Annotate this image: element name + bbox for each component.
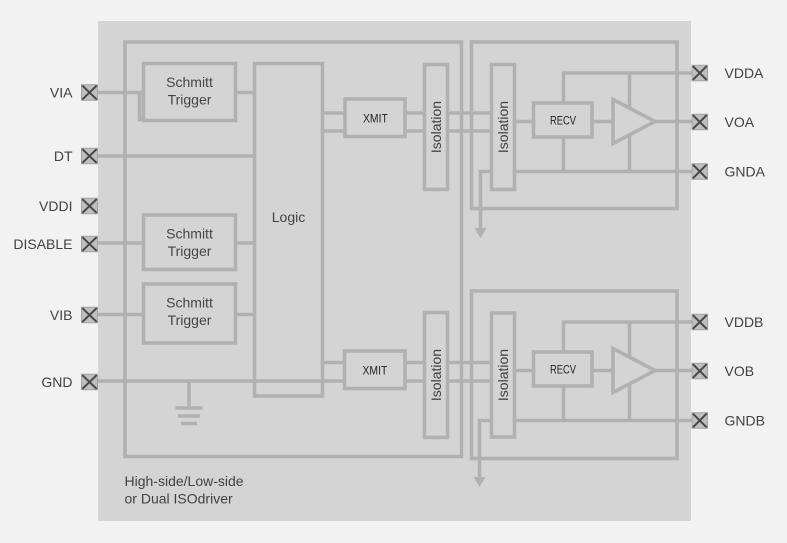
wire Logic to XMIT A lower [323, 129, 346, 133]
svg-text:DISABLE: DISABLE [13, 236, 72, 252]
pin VDDA [692, 65, 708, 81]
svg-text:High-side/Low-side: High-side/Low-side [125, 473, 244, 489]
channel A outline box (top right) [472, 42, 678, 209]
pin VDDB [692, 314, 708, 330]
RECV box B [534, 352, 593, 386]
wire buffer A bottom to GNDA [628, 132, 632, 172]
pin GND [82, 374, 98, 390]
pin GNDA [692, 164, 708, 180]
svg-text:VDDA: VDDA [725, 65, 765, 81]
wire DISABLE pin to Schmitt2 [98, 241, 144, 245]
isolation box left-top [425, 65, 448, 190]
wire GND rail across Logic [98, 379, 346, 383]
wire VIA branch L into Schmitt1 bottom-left [140, 93, 147, 120]
svg-text:DT: DT [54, 148, 73, 164]
Schmitt Trigger box 3 [144, 284, 236, 343]
svg-text:Trigger: Trigger [168, 92, 212, 108]
wire Logic to XMIT B upper [323, 361, 345, 365]
Schmitt Trigger box 2 [144, 215, 236, 270]
wire XMIT A to Isolation lower [405, 129, 425, 133]
wire XMIT B to Isolation B right upper [448, 361, 492, 365]
svg-text:VDDB: VDDB [725, 314, 764, 330]
net VDDA [564, 73, 693, 104]
wire XMIT B to Isolation upper [405, 361, 425, 365]
wire Schmitt3 to Logic [236, 313, 255, 317]
wire buffer B to VOB pin [654, 369, 692, 373]
wire RECV B to buffer [592, 369, 614, 373]
wire RECV A to buffer [592, 120, 614, 124]
pin VIA [82, 85, 98, 101]
svg-text:Schmitt: Schmitt [166, 226, 213, 242]
pins left [82, 65, 708, 428]
wire VIB pin to Schmitt3 [98, 313, 144, 317]
svg-text:Isolation: Isolation [428, 101, 444, 153]
wire XMIT B right lower [405, 379, 425, 383]
wire Schmitt1 to Logic [236, 91, 255, 95]
wire RECV B bottom to GNDB [562, 385, 566, 421]
pin VOB [692, 363, 708, 379]
svg-text:RECV: RECV [550, 363, 576, 377]
net VDDB [564, 322, 693, 353]
wire VIA pin to Schmitt Trigger 1 [98, 91, 144, 95]
net GNDB [480, 421, 693, 478]
svg-text:XMIT: XMIT [363, 363, 388, 377]
svg-text:GND: GND [41, 374, 72, 390]
isolation box right-top [492, 65, 515, 190]
channel B outline box (bottom right) [472, 291, 678, 459]
svg-text:VIB: VIB [50, 307, 73, 323]
wire buffer A to VOA pin [654, 120, 692, 124]
wire buffer B bottom to GNDB [628, 381, 632, 421]
wire Isolation B gap lower [448, 379, 492, 383]
svg-text:Isolation: Isolation [428, 349, 444, 401]
svg-text:Trigger: Trigger [168, 243, 212, 259]
XMIT box B [345, 351, 406, 389]
buffer triangle A [613, 100, 655, 144]
pin VDDI [82, 198, 98, 214]
pin VIB [82, 307, 98, 323]
isolation box right-bottom [492, 313, 515, 437]
wire VDDA to buffer A top [628, 73, 632, 111]
arrow B down [474, 477, 486, 487]
wire Isolation to Isolation channel A upper [448, 111, 492, 115]
svg-text:Logic: Logic [272, 209, 305, 225]
wire XMIT A to Isolation upper [405, 111, 425, 115]
wire RECV A bottom to GNDA [562, 136, 566, 172]
XMIT box A [345, 99, 405, 137]
svg-text:GNDA: GNDA [725, 164, 766, 180]
wire Isolation to RECV A [515, 120, 535, 124]
svg-text:XMIT: XMIT [363, 111, 388, 125]
wire Isolation to Isolation channel A lower [448, 129, 492, 133]
svg-text:RECV: RECV [550, 114, 576, 128]
arrow A down [475, 228, 487, 239]
wire VDDB to buffer B top [628, 322, 632, 360]
svg-text:GNDB: GNDB [725, 413, 765, 429]
pin GNDB [692, 413, 708, 429]
svg-text:Isolation: Isolation [495, 349, 511, 401]
wire DT pin to Logic [98, 154, 255, 158]
svg-text:Trigger: Trigger [168, 312, 212, 328]
ground symbol [187, 381, 191, 407]
pin DISABLE [82, 236, 98, 252]
svg-text:VDDI: VDDI [39, 198, 72, 214]
wire Logic to XMIT A upper [323, 111, 346, 115]
net GNDA [481, 172, 693, 230]
pin VOA [692, 114, 708, 130]
svg-text:or Dual ISOdriver: or Dual ISOdriver [125, 491, 233, 507]
pin DT [82, 148, 98, 164]
svg-text:Isolation: Isolation [495, 101, 511, 153]
svg-text:VOA: VOA [725, 114, 755, 130]
Schmitt Trigger box 1 [144, 64, 236, 121]
RECV box A [534, 103, 593, 137]
Logic box [255, 64, 323, 397]
svg-text:Schmitt: Schmitt [166, 74, 213, 90]
svg-text:Schmitt: Schmitt [166, 295, 213, 311]
panel [98, 21, 691, 521]
wire Schmitt2 to Logic [236, 241, 255, 245]
svg-text:VOB: VOB [725, 363, 755, 379]
buffer triangle B [613, 349, 655, 393]
svg-text:VIA: VIA [50, 85, 73, 101]
chip outline box (left die) [125, 42, 462, 457]
wire Isolation to RECV B [515, 369, 535, 373]
isolation box left-bottom [425, 313, 448, 438]
